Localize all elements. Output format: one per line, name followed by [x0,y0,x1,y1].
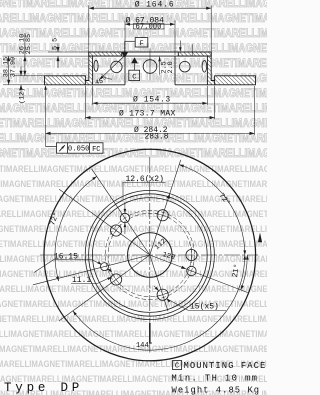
svg-text:16.15: 16.15 [54,253,78,262]
hub bore wall right [174,56,176,85]
dimension 2.5/2.0 [159,57,161,75]
svg-text:12.6(x2): 12.6(x2) [126,175,164,184]
dimension Ø67.084/67.000 hub bore [124,21,126,56]
bolt hole on hat right [180,61,191,72]
vertical centerline [149,157,151,353]
svg-text:Ø 154.3: Ø 154.3 [133,95,171,104]
bolt hole edge-on ellipse left [94,60,98,71]
bolt hole on hat (45 deg rotated) [111,61,122,72]
svg-text:MAGNETIMARELLIMAGNETIMARELLIMA: MAGNETIMARELLIMAGNETIMARELLIMAGNETIMAREL… [0,0,267,10]
bolt circle Ø112 dashed [108,213,191,296]
left extension lines [3,55,89,57]
svg-text:MAGNETIMARELLIMAGNETIMARELLIMA: MAGNETIMARELLIMAGNETIMARELLIMAGNETIMAREL… [0,42,267,55]
svg-text:0.050: 0.050 [68,146,90,154]
angular dim arc 72deg right [179,165,245,255]
hat plate top line [89,51,211,53]
svg-text:Weight 4.85 Kg: Weight 4.85 Kg [172,385,261,395]
angular dim arc 21deg right [241,255,248,290]
svg-text:MAGNETIMARELLIMAGNETIMARELLIMA: MAGNETIMARELLIMAGNETIMARELLIMAGNETIMAREL… [0,208,267,219]
hub bore circle Ø67 [128,233,173,278]
hat wall right (hatched) [207,52,214,85]
hat top plate right (hatched) [178,52,211,56]
circle Ø173.7 [85,190,214,319]
45 deg dimension arc [102,74,112,79]
radial line to locating hole 339deg [150,255,248,293]
dimension 26.10/25.85 [24,33,26,76]
svg-text:MAGNETIMARELLIMAGNETIMARELLIMA: MAGNETIMARELLIMAGNETIMARELLIMAGNETIMAREL… [0,223,267,234]
datum C box and leader [131,57,138,63]
radial line to bolt hole 144deg [59,189,150,255]
svg-text:5.5: 5.5 [52,38,60,50]
bolt hole Ø15 at 144deg [111,225,122,236]
svg-text:2.0: 2.0 [167,61,175,73]
svg-text:MAGNETIMARELLIMAGNETIMARELLIMA: MAGNETIMARELLIMAGNETIMARELLIMAGNETIMAREL… [0,328,267,339]
radial line to bolt hole 72deg [150,160,181,255]
45 deg section line [99,55,126,80]
svg-text:C: C [175,363,180,371]
bolt hole Ø15 at 216deg [111,274,122,285]
bolt hole Ø15 at 0deg [186,249,197,260]
svg-text:C: C [132,73,136,81]
flange step line [191,44,193,56]
dimension Ø164.6 top [88,6,90,52]
svg-text:Min. TH 10 mm: Min. TH 10 mm [172,374,259,384]
svg-text:Ø 173.7 MAX: Ø 173.7 MAX [119,109,176,118]
runout feature control frame [46,146,57,148]
hub bore wall left [124,56,126,85]
hat mounting face line [89,55,211,57]
hat wall left (hatched) [85,52,92,85]
dimension Ø154.3 [92,86,94,105]
ink mark artifact right edge [258,233,262,243]
friction ring right segment (hatched) [215,76,256,85]
friction ring left segment (hatched) [45,76,86,85]
svg-text:MAGNETIMARELLIMAGNETIMARELLIMA: MAGNETIMARELLIMAGNETIMARELLIMAGNETIMAREL… [0,298,267,309]
svg-text:Type DP: Type DP [4,381,83,395]
bolt hole Ø15 at 288deg [157,289,168,300]
bolt hole edge-on ellipse right [202,61,207,73]
bolt hole on hat center [143,60,157,74]
svg-text:MOUNTING FACE: MOUNTING FACE [184,361,267,371]
angular dim arc 72deg left [55,176,97,281]
dimension (12) disc thickness [20,67,22,76]
datum F box and leader [125,40,136,42]
radial line to bolt hole 216deg [59,255,150,321]
svg-text:25.85: 25.85 [25,34,33,54]
angular dim arc 144deg bottom [73,255,245,350]
svg-text:37.90: 37.90 [10,57,18,77]
svg-text:MAGNETIMARELLIMAGNETIMARELLIMA: MAGNETIMARELLIMAGNETIMARELLIMAGNETIMAREL… [0,163,267,174]
svg-text:144°: 144° [136,341,153,350]
bolt hole Ø15 at 72deg [157,210,168,221]
datum C reference box [173,361,182,370]
svg-text:MAGNETIMARELLIMAGNETIMARELLIMA: MAGNETIMARELLIMAGNETIMARELLIMAGNETIMAREL… [0,147,267,160]
svg-text:283.8: 283.8 [145,132,169,141]
radial line to locating hole 124deg [92,169,150,255]
svg-text:MAGNETIMARELLIMAGNETIMARELLIMA: MAGNETIMARELLIMAGNETIMARELLIMAGNETIMAREL… [0,313,267,324]
svg-text:67.000: 67.000 [136,23,162,31]
radial line to locating hole 194deg [33,255,150,285]
small hole at 194deg [101,263,109,271]
dimension Ø284.2/283.8 [254,86,256,135]
hat top plate left (hatched) [89,52,122,56]
radial line to bolt hole 288deg [150,255,168,311]
bolt hole centerline [149,49,151,81]
locating hole Ø12.6 at 339deg [187,266,196,275]
circle Ø154.3 [92,198,207,313]
svg-text:(12): (12) [18,88,26,104]
hub bottom face left [93,84,125,86]
locating hole Ø12.6 at 124deg [120,213,129,222]
hub bottom face right [175,84,207,86]
outer circle Ø284 [44,149,256,361]
dimension Ø173.7 MAX [84,86,86,119]
svg-text:FC: FC [92,146,100,154]
horizontal centerline [40,254,258,256]
locating circle Ø120 dashed [105,210,194,299]
svg-text:F: F [139,40,143,48]
svg-text:Ø 164.6: Ø 164.6 [135,1,175,10]
dimension 38.15/37.90 overall height [8,56,10,85]
circle Ø164.6 [89,194,211,316]
dimension 5.5 hat plate thickness [57,44,59,53]
